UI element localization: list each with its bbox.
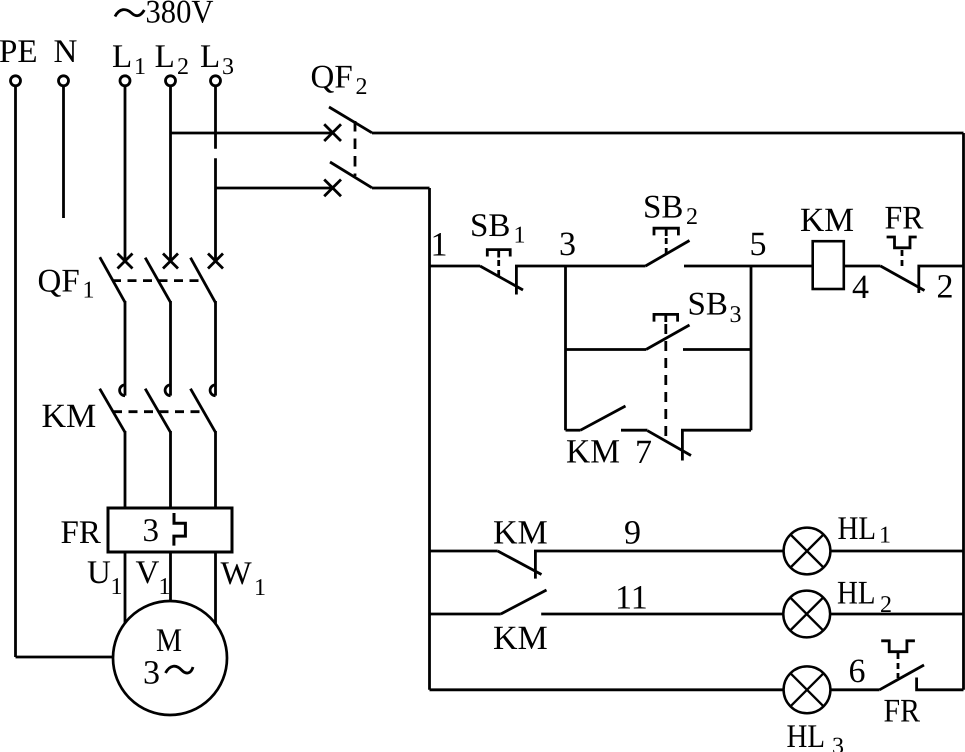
svg-text:L: L: [200, 39, 220, 75]
svg-text:QF: QF: [311, 60, 353, 96]
svg-text:KM: KM: [493, 515, 548, 552]
svg-text:KM: KM: [493, 620, 548, 657]
svg-text:3: 3: [832, 734, 844, 752]
svg-text:1: 1: [254, 575, 266, 601]
svg-text:L: L: [112, 39, 132, 75]
svg-text:380V: 380V: [146, 0, 214, 31]
svg-text:1: 1: [879, 523, 891, 549]
svg-text:1: 1: [111, 574, 123, 600]
svg-text:11: 11: [615, 580, 648, 617]
svg-text:2: 2: [937, 269, 954, 306]
svg-text:7: 7: [635, 434, 652, 471]
svg-text:N: N: [54, 34, 78, 70]
svg-text:1: 1: [83, 278, 95, 304]
svg-text:2: 2: [356, 74, 368, 100]
svg-text:3: 3: [730, 302, 742, 328]
svg-text:1: 1: [431, 227, 448, 264]
svg-text:FR: FR: [884, 694, 921, 730]
svg-text:HL: HL: [838, 511, 877, 547]
svg-text:FR: FR: [61, 515, 101, 551]
svg-text:SB: SB: [688, 287, 728, 323]
svg-text:HL: HL: [837, 576, 876, 612]
svg-text:U: U: [87, 555, 111, 591]
svg-text:SB: SB: [470, 208, 510, 244]
svg-text:SB: SB: [643, 190, 683, 226]
svg-text:9: 9: [624, 515, 641, 552]
svg-text:KM: KM: [800, 202, 854, 239]
svg-text:KM: KM: [42, 398, 97, 435]
svg-text:1: 1: [159, 574, 171, 600]
svg-text:HL: HL: [787, 719, 826, 752]
svg-text:PE: PE: [0, 34, 38, 70]
svg-text:3: 3: [143, 655, 160, 692]
svg-text:W: W: [221, 556, 253, 592]
svg-text:3: 3: [143, 513, 160, 549]
svg-text:QF: QF: [38, 264, 80, 300]
svg-text:L: L: [155, 39, 175, 75]
svg-text:3: 3: [222, 54, 234, 80]
svg-text:1: 1: [134, 54, 146, 80]
svg-text:3: 3: [559, 226, 576, 263]
svg-text:6: 6: [849, 653, 866, 690]
svg-text:FR: FR: [885, 201, 924, 237]
svg-text:2: 2: [686, 204, 698, 230]
svg-text:2: 2: [880, 592, 892, 618]
svg-text:2: 2: [177, 54, 189, 80]
svg-text:V: V: [136, 555, 160, 591]
svg-text:5: 5: [750, 226, 767, 263]
svg-text:1: 1: [514, 223, 526, 249]
svg-text:KM: KM: [566, 434, 620, 471]
svg-text:4: 4: [852, 269, 869, 306]
